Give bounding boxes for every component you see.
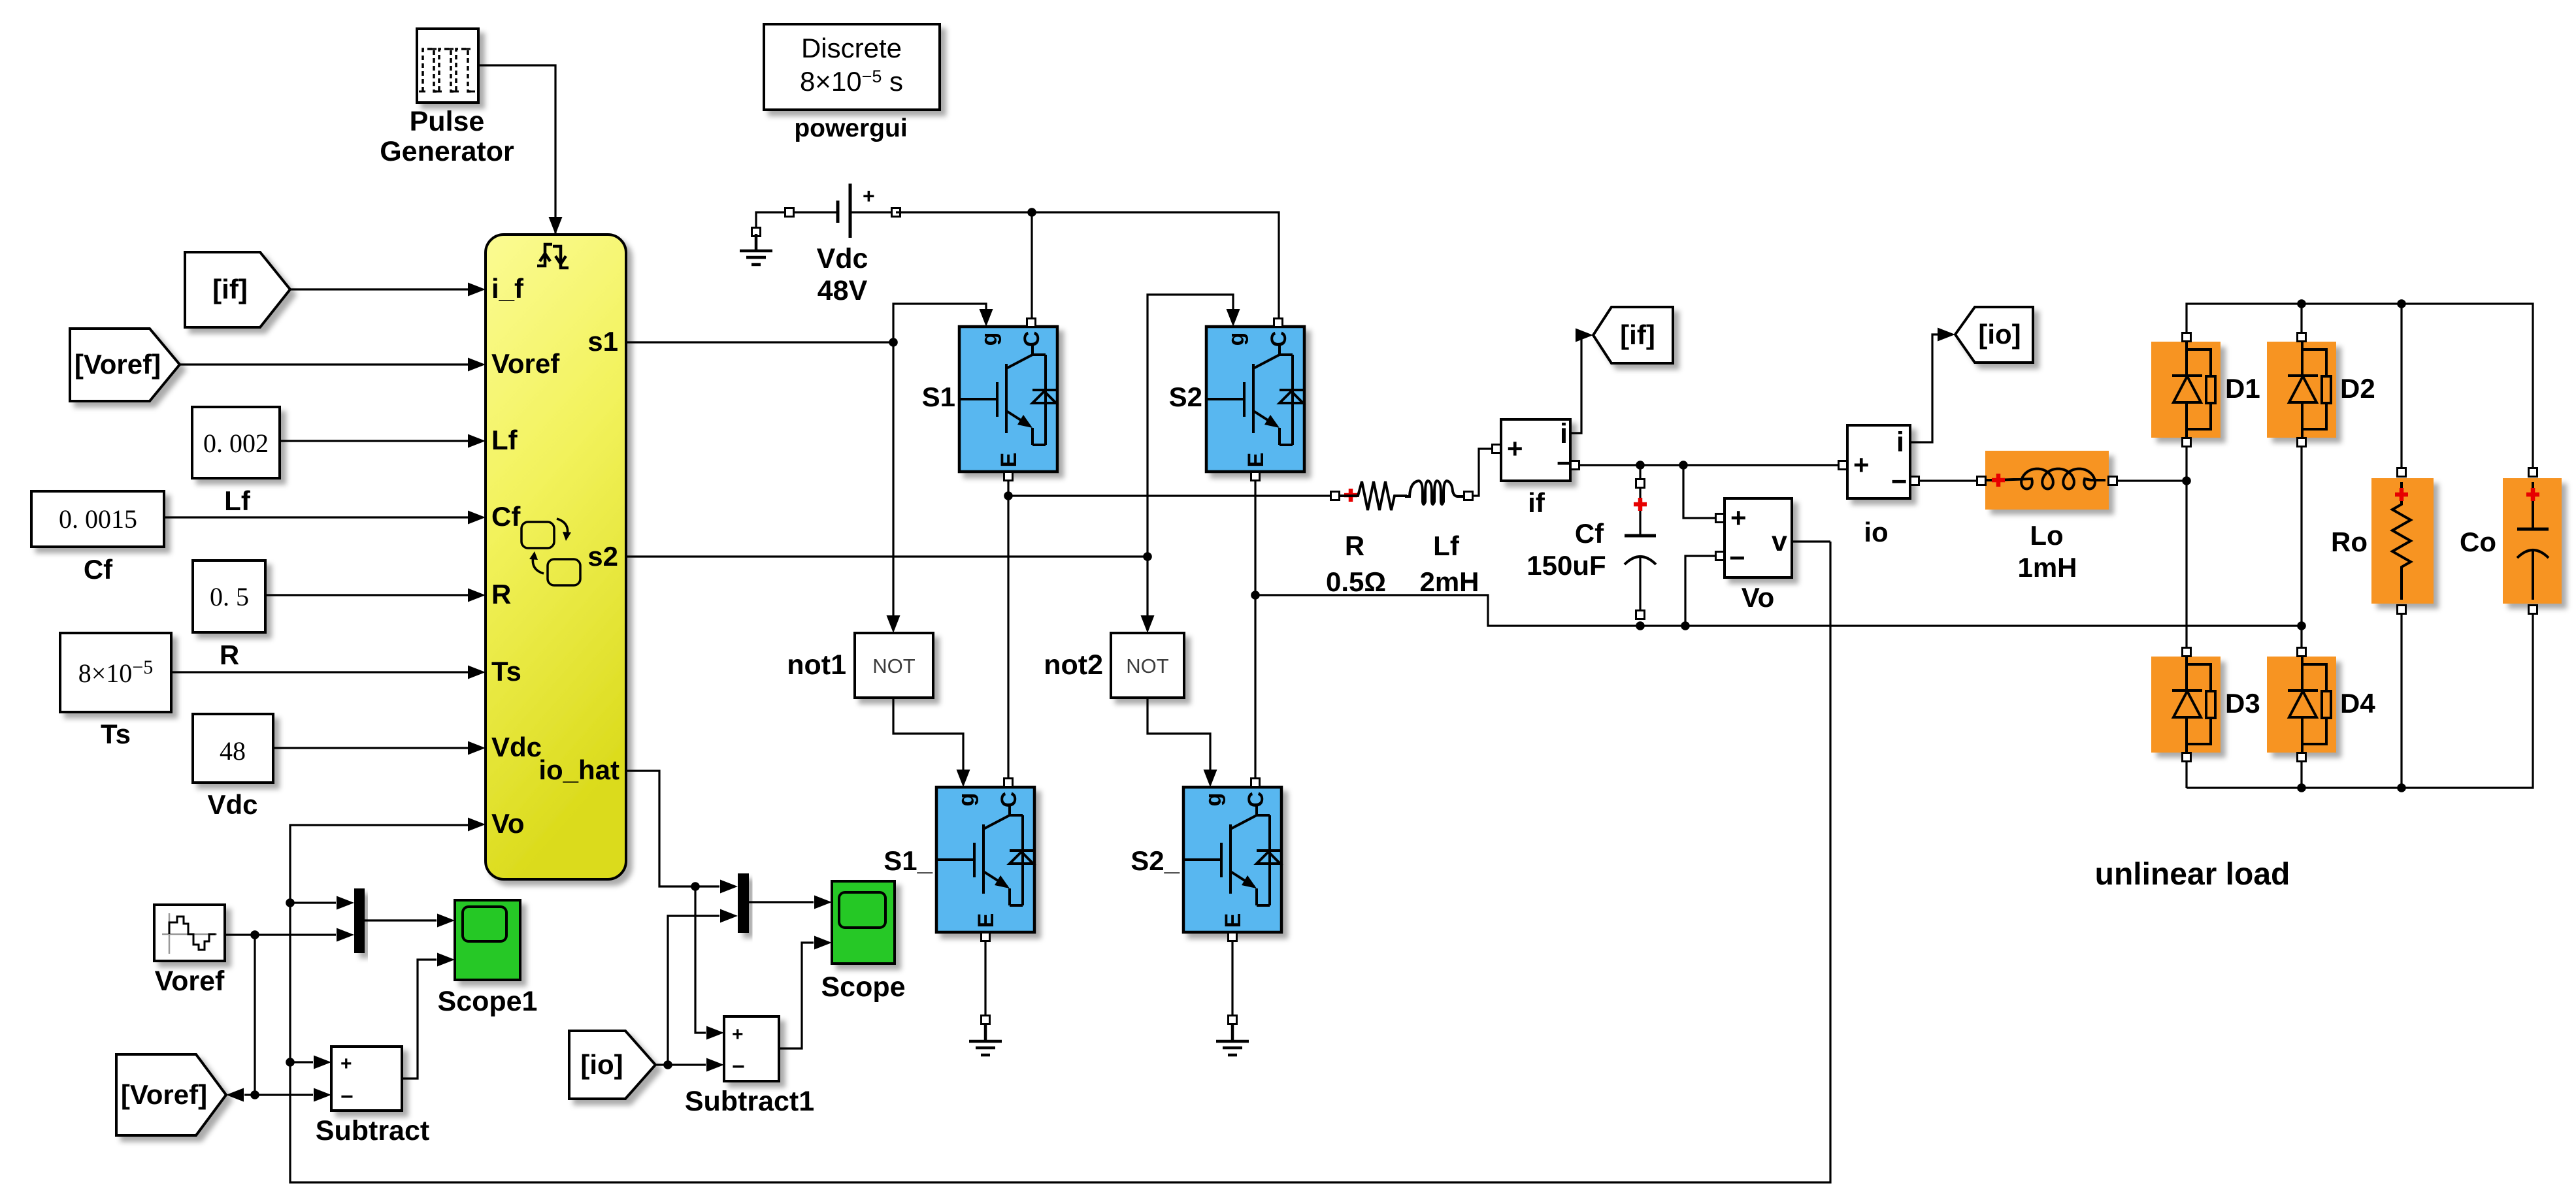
wire io minus to Lo — [1919, 479, 1977, 481]
svg-text:Co: Co — [2460, 527, 2496, 557]
Scope1 block — [455, 900, 520, 980]
if plus port — [1493, 445, 1501, 453]
svg-text:0. 5: 0. 5 — [210, 582, 249, 611]
Voref signal source block — [154, 905, 225, 961]
S2 E port — [1251, 472, 1260, 481]
svg-text:+: + — [1730, 502, 1747, 533]
io minus port — [1911, 477, 1919, 485]
wire S1 emitter to midpoint A and down — [1008, 481, 1330, 778]
svg-text:Cf: Cf — [1575, 518, 1604, 549]
svg-text:2mH: 2mH — [1419, 566, 1479, 597]
wire not1 out to S1_ gate — [893, 698, 963, 784]
wire io tap to mux2 in2 — [668, 916, 719, 1065]
svg-text:unlinear load: unlinear load — [2095, 857, 2290, 892]
Subtract block — [331, 1047, 402, 1111]
wire Lf to if plus — [1473, 449, 1492, 496]
wire Voref source to mux and down — [225, 935, 336, 1095]
constant block R 0.5 — [193, 560, 265, 632]
wire chart io_hat output — [626, 771, 719, 886]
wire if minus to io plus — [1579, 464, 1838, 466]
svg-text:Generator: Generator — [380, 136, 514, 167]
svg-text:S2: S2 — [1169, 382, 1202, 412]
ground at battery — [740, 234, 772, 265]
wire D1-D3 vertical — [2185, 447, 2187, 788]
svg-text:+: + — [340, 1053, 352, 1075]
Lo polarity mark — [1992, 474, 2005, 487]
svg-text:48: 48 — [220, 736, 246, 766]
chart input arrows — [468, 283, 486, 832]
svg-text:[if]: [if] — [1620, 319, 1655, 350]
wire io i output to Goto [io] — [1910, 334, 1946, 442]
svg-text:[io]: [io] — [580, 1049, 623, 1080]
wire s1 output net — [626, 304, 986, 628]
Scope block — [832, 881, 895, 964]
svg-text:D4: D4 — [2340, 688, 2375, 719]
node Vo minus on rail — [1681, 621, 1690, 630]
Vo feedback wire (from Vo measurement to chart Vo input) — [290, 542, 1830, 1182]
From tag [io] bottom — [569, 1031, 655, 1099]
wire not2 out to S2_ gate — [1148, 698, 1210, 784]
svg-text:Ts: Ts — [491, 656, 521, 687]
diode D3 — [2151, 657, 2221, 753]
svg-text:0. 0015: 0. 0015 — [59, 504, 137, 534]
svg-text:S2_: S2_ — [1131, 845, 1180, 876]
node bottom rail D4 — [2297, 783, 2306, 792]
resistor R input port — [1331, 492, 1340, 500]
svg-text:i_f: i_f — [491, 273, 524, 304]
svg-text:[Voref]: [Voref] — [121, 1079, 207, 1110]
S1 E port — [1004, 472, 1013, 481]
DC source Vdc battery — [756, 212, 896, 232]
svg-text:Voref: Voref — [155, 966, 225, 997]
node Voref junction — [250, 930, 259, 939]
diode D2 — [2267, 342, 2336, 438]
wire Vo v output start — [1792, 540, 1830, 542]
svg-text:+: + — [863, 184, 875, 208]
wire Lo to bridge midpoint — [2117, 479, 2187, 481]
wire Vo minus to return rail — [1685, 556, 1715, 626]
svg-text:D3: D3 — [2225, 688, 2260, 719]
svg-text:[Voref]: [Voref] — [74, 349, 161, 380]
Pulse Generator block — [417, 29, 478, 103]
wire to Goto [Voref] — [244, 1094, 255, 1096]
svg-text:+: + — [1507, 433, 1523, 464]
wire Vo plus tap down — [1683, 465, 1715, 518]
svg-text:1mH: 1mH — [2017, 552, 2077, 583]
node bridge left midpoint — [2182, 476, 2191, 485]
S2_ E port — [1229, 933, 1237, 941]
io plus port — [1839, 461, 1847, 470]
svg-text:if: if — [1528, 487, 1545, 518]
D1 ports — [2183, 333, 2191, 342]
IGBT S2 — [1206, 327, 1304, 472]
wire mux1 to Scope1 — [365, 919, 437, 921]
svg-text:−: − — [1729, 542, 1745, 573]
inductor Lf output port — [1464, 492, 1473, 500]
wire S2_ emitter to ground — [1231, 941, 1233, 1015]
node top rail D2 — [2297, 299, 2306, 308]
node io tap — [663, 1060, 672, 1069]
svg-text:i: i — [1560, 418, 1568, 449]
node return rail on D2-D4 — [2297, 621, 2306, 630]
D2 ports — [2298, 333, 2306, 342]
ground under S1_ — [969, 1024, 1002, 1055]
ground under S2_ — [1216, 1024, 1249, 1055]
resistor R polarity mark — [1344, 489, 1357, 502]
svg-text:48V: 48V — [817, 275, 868, 306]
svg-text:Cf: Cf — [84, 554, 113, 585]
mux1 — [354, 888, 365, 953]
IGBT S1_ — [936, 787, 1034, 932]
svg-text:io_hat: io_hat — [538, 755, 619, 785]
wire io_hat tap to Subtract1 plus — [695, 886, 706, 1033]
constant block Vdc 48 — [193, 714, 273, 783]
node Cf on rail — [1636, 621, 1645, 630]
svg-text:Lf: Lf — [224, 485, 251, 516]
Co ports — [2529, 468, 2537, 477]
svg-text:Discrete: Discrete — [801, 33, 902, 63]
svg-text:Pulse: Pulse — [410, 106, 485, 137]
node Vdc rail junction — [1027, 208, 1036, 217]
chart state machine icon — [521, 519, 580, 585]
wire S2 emitter to midpoint B and down — [1255, 481, 2302, 778]
NOT gate not1 — [855, 633, 933, 698]
svg-text:Cf: Cf — [491, 501, 521, 532]
svg-text:Ts: Ts — [101, 719, 131, 749]
wire mux2 to Scope — [749, 901, 814, 903]
svg-text:Lf: Lf — [1433, 530, 1460, 561]
svg-text:Scope: Scope — [821, 971, 905, 1003]
svg-text:Subtract: Subtract — [316, 1115, 429, 1146]
trigger icon on chart — [537, 244, 569, 268]
svg-text:+: + — [1853, 449, 1870, 480]
svg-text:powergui: powergui — [794, 114, 907, 142]
Subtract1 block — [724, 1016, 779, 1081]
svg-text:D1: D1 — [2225, 373, 2260, 404]
battery terminal ports — [785, 208, 794, 217]
From tag [Voref] — [70, 329, 180, 401]
node s1 junction — [889, 338, 898, 347]
capacitor Co block — [2503, 478, 2562, 604]
svg-text:−: − — [340, 1084, 354, 1109]
svg-text:Vdc: Vdc — [491, 732, 542, 762]
wire Cf const to chart — [164, 516, 469, 518]
wire [if] to chart — [290, 288, 469, 290]
powergui block — [764, 24, 940, 110]
Vo plus port — [1716, 514, 1725, 523]
wire Subtract out to Scope1 in2 — [402, 960, 437, 1079]
svg-text:Vo: Vo — [491, 808, 525, 839]
svg-text:v: v — [1772, 526, 1787, 557]
svg-text:Vdc: Vdc — [817, 243, 868, 274]
node Voref lower junction — [250, 1090, 259, 1099]
wire Vdc+ rail — [896, 212, 1279, 318]
svg-text:Vdc: Vdc — [207, 789, 257, 820]
wire Lf const to chart — [280, 440, 469, 442]
S1_ E port — [982, 933, 990, 941]
resistor Ro block — [2371, 478, 2434, 604]
wire Subtract1 out to Scope in2 — [779, 943, 814, 1048]
diode D1 — [2151, 342, 2221, 438]
wire Ts const to chart — [171, 671, 469, 673]
node s2 junction — [1143, 552, 1152, 561]
wire [io] to Subtract1 minus — [655, 1064, 706, 1065]
node Vo tap to Subtract plus — [286, 1058, 295, 1067]
mux2 — [738, 873, 749, 933]
IGBT S1 — [959, 327, 1057, 472]
current measurement io — [1847, 425, 1910, 498]
svg-text:D2: D2 — [2340, 373, 2375, 404]
node Cf tap — [1636, 461, 1645, 470]
wire [Voref] to chart — [180, 363, 469, 365]
node io_hat tap — [691, 882, 700, 891]
svg-text:Ro: Ro — [2331, 527, 2368, 557]
wire bridge top rail — [2187, 304, 2533, 468]
constant block Lf 0.002 — [192, 407, 280, 478]
S1_ C port — [1004, 779, 1013, 787]
Ro ports — [2398, 468, 2406, 477]
wire Vo tap to Subtract plus — [290, 1061, 313, 1063]
svg-text:S1: S1 — [922, 382, 955, 412]
node top rail Ro — [2397, 299, 2406, 308]
svg-text:NOT: NOT — [872, 655, 916, 677]
inductor Lo block — [1985, 451, 2109, 510]
capacitor Cf branch — [1625, 465, 1656, 610]
svg-text:not1: not1 — [787, 649, 846, 681]
constant block Ts 8e-5 — [60, 633, 171, 712]
controller chart block (yellow) — [486, 235, 626, 879]
wire S1_ emitter to ground — [984, 941, 986, 1015]
node bottom rail Ro — [2397, 783, 2406, 792]
svg-text:−: − — [732, 1054, 745, 1079]
Cf ports — [1636, 479, 1645, 488]
svg-text:Lf: Lf — [491, 425, 518, 455]
wire Vo tap to mux1 in1 — [290, 901, 336, 903]
svg-text:s1: s1 — [587, 326, 618, 357]
node Vo plus tap — [1679, 461, 1688, 470]
wire s2 output net — [626, 295, 1233, 628]
resistor R — [1340, 481, 1407, 510]
constant block Cf 0.0015 — [31, 491, 164, 547]
svg-text:+: + — [732, 1024, 744, 1045]
wire Vdc const to chart — [273, 747, 469, 749]
wire if i output to Goto [if] — [1570, 335, 1584, 433]
Lo input port — [1977, 477, 1986, 485]
svg-text:Subtract1: Subtract1 — [685, 1086, 814, 1117]
Cf polarity mark — [1634, 498, 1647, 511]
Ro polarity mark — [2395, 488, 2408, 501]
D3 ports — [2183, 648, 2191, 657]
svg-text:−: − — [1891, 466, 1907, 496]
From tag [if] — [185, 252, 290, 327]
wire bridge bottom rail — [2187, 614, 2533, 788]
Co polarity mark — [2526, 488, 2539, 501]
NOT gate not2 — [1111, 633, 1184, 698]
svg-text:Voref: Voref — [491, 348, 560, 379]
svg-text:S1_: S1_ — [883, 845, 933, 876]
S2 C port — [1274, 319, 1283, 327]
svg-text:[if]: [if] — [212, 274, 248, 304]
S1 C port — [1027, 319, 1036, 327]
svg-text:Lo: Lo — [2030, 520, 2063, 551]
node midpoint B — [1251, 591, 1260, 600]
svg-text:0. 002: 0. 002 — [203, 429, 269, 458]
svg-text:Vo: Vo — [1742, 582, 1775, 613]
svg-text:0.5Ω: 0.5Ω — [1326, 566, 1386, 597]
svg-text:8×10−5 s: 8×10−5 s — [800, 66, 903, 97]
Goto tag [Voref] bottom — [116, 1054, 226, 1135]
voltage measurement Vo — [1725, 498, 1792, 577]
Goto tag [if] right — [1593, 307, 1673, 363]
svg-text:NOT: NOT — [1126, 655, 1169, 677]
diode D4 — [2267, 657, 2336, 753]
svg-text:io: io — [1864, 517, 1888, 547]
svg-text:s2: s2 — [587, 541, 618, 572]
IGBT S2_ — [1183, 787, 1281, 932]
svg-text:R: R — [220, 640, 239, 670]
Goto tag [io] right — [1955, 307, 2033, 363]
if minus port — [1571, 461, 1579, 470]
wire R const to chart — [265, 594, 469, 596]
current measurement if — [1501, 418, 1572, 481]
svg-text:Scope1: Scope1 — [438, 986, 538, 1017]
svg-text:i: i — [1896, 427, 1904, 458]
svg-text:R: R — [1345, 530, 1364, 561]
svg-text:not2: not2 — [1044, 649, 1103, 681]
wire Ro lower vertical — [2400, 614, 2402, 788]
svg-text:150uF: 150uF — [1527, 550, 1606, 581]
svg-text:[io]: [io] — [1978, 319, 2021, 349]
wire Pulse Generator to chart trigger — [478, 65, 555, 233]
wire to Subtract minus — [255, 1094, 313, 1096]
S2_ C port — [1251, 779, 1260, 787]
node Vo tap to mux1 — [286, 898, 295, 907]
D4 ports — [2298, 648, 2306, 657]
node midpoint A — [1004, 491, 1013, 500]
wire D2-D4 vertical — [2300, 447, 2302, 788]
Lo output port — [2109, 477, 2117, 485]
inductor Lf — [1405, 481, 1464, 504]
Vo minus port — [1716, 552, 1725, 560]
svg-text:R: R — [491, 579, 511, 609]
